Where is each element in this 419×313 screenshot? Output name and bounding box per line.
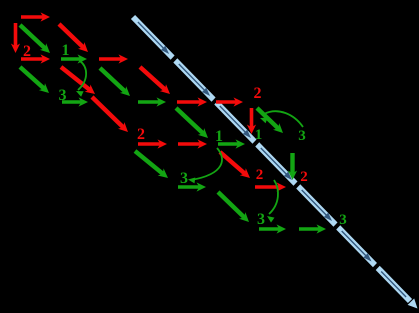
red diagonal r1c3 [140,67,170,94]
red arrow row0 right [21,12,50,21]
green arrow row2 mid [138,97,166,106]
band inner arrow 5 [302,190,332,221]
red diagonal r1c1 [61,67,95,94]
green arrow row5 left dash [259,224,286,233]
mirror diagonal band [133,17,410,301]
green arc 1 to 3 top-left [76,61,86,97]
red arrow row1 right [99,54,128,63]
red diagonal r3c5 [220,152,250,178]
svg-text:1: 1 [255,127,263,143]
green arrow row1 mid [61,54,87,63]
svg-text:2: 2 [254,85,262,102]
green diagonal r4c5 [218,192,249,222]
green diagonal r1c2 [100,68,130,96]
band notch 6 [371,261,381,272]
green arrow row2 left [62,97,88,106]
svg-text:3: 3 [257,211,265,228]
band inner arrow 1 [138,22,169,54]
svg-text:3: 3 [180,170,188,187]
green diagonal r2c4 [176,108,208,138]
red arrow row2 mid [177,97,207,106]
green diagonal r1c0 [20,67,49,93]
red arrow row2 after mirror [216,97,243,106]
band inner arrow 6 [342,231,372,262]
svg-text:2: 2 [23,43,31,60]
green arrow down into mirror r3 [288,153,297,180]
green arc 1 to 3 middle [188,148,222,183]
svg-text:2: 2 [256,167,264,183]
svg-text:2: 2 [137,126,145,143]
green diagonal r3c3 [135,151,168,178]
band inner arrow 7 [381,272,406,298]
band notch 1 [169,54,179,65]
green diagonal reflected r2 [257,108,283,133]
svg-text:2: 2 [300,169,308,185]
band inner arrow 2 [179,64,210,96]
red arrow down reflected r2 [247,108,256,134]
svg-text:3: 3 [298,128,306,144]
green diagonal r0c0 [20,25,50,53]
red diagonal r2c2 [92,97,128,132]
green arrow row5 right dash [299,224,326,233]
band notch 2 [210,96,220,107]
green arrow row3 into mirror [218,139,245,148]
red arrow row1 left [21,54,50,63]
svg-text:1: 1 [62,42,70,59]
green arc to 3 bottom [267,180,278,223]
red diagonal r0c1 [59,24,88,52]
band notch 4 [292,180,302,191]
red arrow row3 mid [178,139,207,148]
red arrow row4 into mirror [255,182,286,191]
red arrow row3 left [138,139,167,148]
band notch 3 [251,138,261,149]
svg-text:3: 3 [339,212,347,228]
band notch 5 [332,221,342,232]
band inner arrow 3 [220,106,251,138]
svg-text:1: 1 [215,128,223,145]
red arrow down col0 [11,23,20,53]
band end arrowhead [408,299,418,309]
green arc to 3 right of mirror [260,111,303,127]
green arrow row4 left [178,182,206,191]
svg-text:3: 3 [59,87,67,104]
band inner arrow 4 [261,148,292,180]
